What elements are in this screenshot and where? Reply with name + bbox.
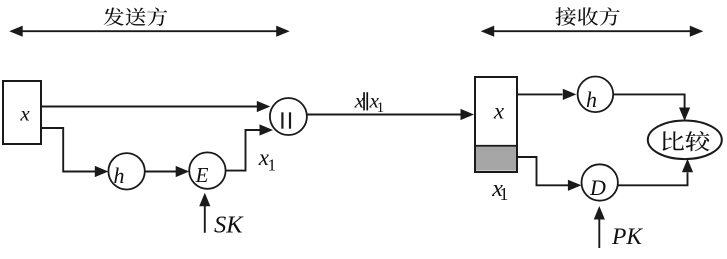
label x1 (received signature) (491, 176, 508, 204)
wire h to E (145, 166, 189, 177)
circle h (hash function, sender) (108, 153, 144, 189)
label x||x1 (transmitted message) (354, 88, 384, 116)
label 发送方 (sender) (104, 8, 168, 27)
svg-text:1: 1 (377, 100, 385, 116)
arrow SK into E (199, 193, 210, 233)
wire received x1 to D (517, 157, 582, 191)
label SK (secret key) (214, 212, 244, 239)
box X (message, sender) (3, 81, 41, 144)
svg-text:1: 1 (500, 184, 509, 204)
svg-text:x: x (354, 88, 365, 112)
wire h to compare (613, 94, 690, 121)
svg-text:SK: SK (214, 212, 244, 239)
label PK (public key) (611, 224, 643, 250)
svg-text:PK: PK (611, 224, 643, 250)
wire E to concat circle (226, 124, 273, 170)
circle D (decryption/verify) (582, 164, 618, 200)
circle h (hash function, receiver) (578, 77, 614, 113)
double arrow receiver span (481, 26, 704, 37)
wire concat to received block (307, 109, 474, 120)
arrow PK into D (594, 206, 605, 248)
circle concat || (270, 98, 307, 135)
svg-text:h: h (586, 87, 597, 112)
double arrow sender span (9, 26, 290, 37)
wire X to hash h (42, 128, 108, 177)
circle E (signing/encryption) (189, 152, 225, 188)
label x1 (signature) (258, 145, 276, 175)
label 比较 (compare) (662, 131, 709, 151)
svg-text:D: D (589, 175, 606, 200)
wire X to concat circle (42, 101, 270, 112)
svg-text:x: x (493, 98, 505, 123)
label 接收方 (receiver) (555, 7, 619, 26)
wire received x to hash h (518, 89, 576, 100)
box received x with x1 (gray) (475, 77, 517, 172)
wire D to compare (618, 159, 693, 186)
svg-text:E: E (195, 163, 209, 187)
svg-text:h: h (114, 163, 125, 188)
ellipse compare 比较 (648, 121, 722, 160)
svg-text:x: x (19, 101, 30, 125)
svg-text:1: 1 (268, 155, 277, 174)
